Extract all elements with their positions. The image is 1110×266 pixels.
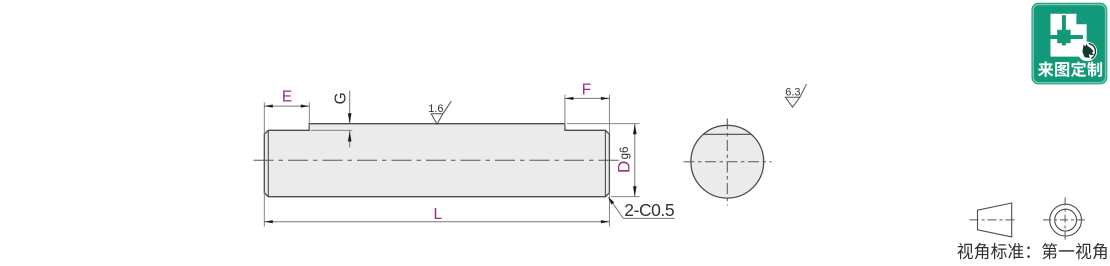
svg-text:6.3: 6.3	[785, 87, 800, 99]
svg-text:1.6: 1.6	[428, 103, 443, 115]
svg-text:g6: g6	[619, 147, 631, 160]
svg-text:L: L	[433, 206, 442, 223]
svg-text:D: D	[614, 161, 633, 173]
svg-text:2-C0.5: 2-C0.5	[624, 200, 674, 220]
svg-text:G: G	[332, 92, 349, 104]
svg-text:F: F	[582, 82, 591, 99]
svg-text:E: E	[282, 88, 292, 105]
